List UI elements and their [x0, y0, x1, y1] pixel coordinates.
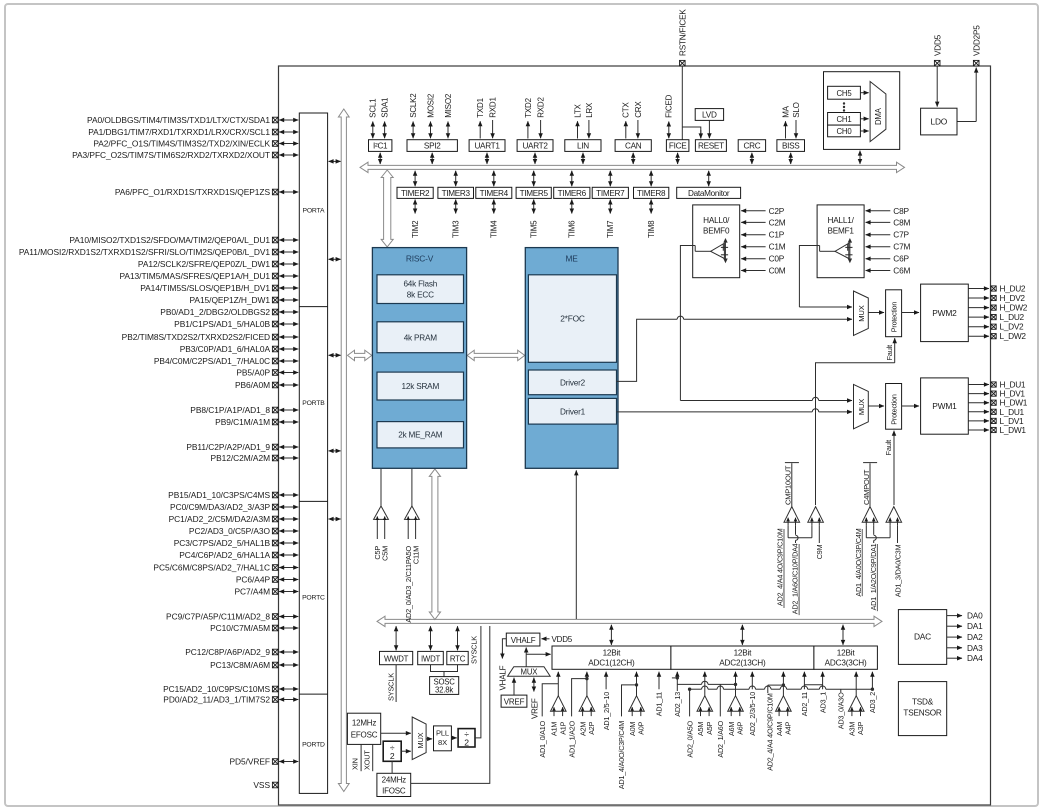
svg-text:AD2_11: AD2_11: [800, 692, 809, 716]
svg-text:CH0: CH0: [837, 127, 853, 136]
svg-text:12Bit: 12Bit: [837, 648, 856, 657]
wire CAN to bus: [632, 153, 634, 164]
svg-text:EFOSC: EFOSC: [351, 730, 378, 739]
wire MUX up to VHALF and ADC1: [525, 648, 527, 667]
wire jog A1: [542, 684, 558, 717]
block PLL 8X: [434, 726, 452, 751]
pin H_DU2: [968, 288, 989, 290]
svg-text:PB4/C0M/C2PS/AD1_7/HAL0C: PB4/C0M/C2PS/AD1_7/HAL0C: [154, 356, 270, 366]
svg-text:RXD2: RXD2: [537, 97, 546, 118]
block CH0: [828, 125, 861, 137]
signal C1P: [741, 234, 765, 236]
wire bus to ADC2: [741, 625, 743, 645]
svg-text:VDD2P5: VDD2P5: [972, 25, 981, 56]
wire bus to TIMER5: [533, 171, 535, 186]
svg-text:Protection: Protection: [890, 394, 899, 425]
amplifier C5: [374, 506, 389, 519]
block TSD TSENSOR: [898, 682, 946, 736]
svg-text:TIM5: TIM5: [530, 220, 539, 238]
svg-text:A0P: A0P: [637, 721, 646, 734]
svg-text:PORTA: PORTA: [303, 207, 325, 214]
wire AD2_1/A6O label stub: [719, 684, 721, 716]
svg-text:ME: ME: [566, 254, 579, 264]
wire port bus link PORTB2: [329, 450, 341, 452]
svg-text:PB0/AD1_2/DBG2/OLDBGS2: PB0/AD1_2/DBG2/OLDBGS2: [160, 307, 270, 317]
svg-text:12Bit: 12Bit: [603, 648, 622, 657]
svg-text:AD1_4/A0O/C3P/C4M: AD1_4/A0O/C3P/C4M: [854, 528, 863, 596]
svg-text:TIMER3: TIMER3: [442, 189, 471, 198]
bus RISC-V to ME: [467, 350, 525, 360]
svg-text:CTX: CTX: [622, 102, 631, 118]
wire bus to TIMER8: [650, 171, 652, 186]
block TIMER7: [592, 187, 628, 198]
comparator C4MPOUT: [862, 507, 878, 523]
block IWDT: [418, 651, 444, 664]
svg-text:PA0/OLDBGS/TIM4/TIM3S/TXD1/LTX: PA0/OLDBGS/TIM4/TIM3S/TXD1/LTX/CTX/SDA1: [87, 115, 270, 125]
svg-text:A1P: A1P: [558, 721, 567, 734]
signal DA2: [947, 636, 962, 638]
svg-text:C8M: C8M: [893, 217, 910, 227]
signal C8M: [866, 221, 891, 223]
svg-text:PB1/C1PS/AD1_5/HAL0B: PB1/C1PS/AD1_5/HAL0B: [174, 319, 270, 329]
pin L_DV2: [968, 326, 989, 328]
block 2*FOC: [528, 275, 616, 363]
wire TIMER5 to pin TIM5: [533, 200, 535, 214]
svg-text:AD2_13: AD2_13: [673, 692, 682, 717]
svg-text:XOUT: XOUT: [362, 750, 371, 770]
block UART1: [469, 140, 505, 152]
block LDO: [921, 108, 957, 135]
svg-text:HALL1/: HALL1/: [828, 216, 855, 225]
block WWDT: [380, 651, 413, 664]
signal C4MPOUT: [869, 463, 871, 506]
wire RSTN to FICE: [681, 66, 683, 140]
mux MUX (PWM2): [854, 291, 869, 335]
svg-text:PC4/C6P/AD2_6/HAL1A: PC4/C6P/AD2_6/HAL1A: [179, 550, 270, 560]
svg-text:MUX: MUX: [857, 399, 866, 415]
wire cmp left input jog: [865, 526, 867, 538]
block 64k Flash 8k ECC: [377, 275, 464, 304]
signal AD3_2: [871, 672, 873, 689]
svg-text:4k PRAM: 4k PRAM: [404, 333, 438, 342]
block RESET: [695, 140, 726, 152]
svg-text:PC2/AD3_0/C5P/A3O: PC2/AD3_0/C5P/A3O: [189, 526, 271, 536]
svg-text:DA3: DA3: [967, 643, 983, 653]
pin L_DW2: [968, 335, 989, 337]
mux VREF MUX: [508, 667, 551, 677]
block CAN: [615, 140, 651, 152]
wire port bus link PORTC: [329, 518, 341, 520]
dots between CH5 CH1: [843, 102, 845, 104]
svg-text:TIMER6: TIMER6: [558, 189, 587, 198]
svg-text:PC0/C9M/DA3/AD2_3/A3P: PC0/C9M/DA3/AD2_3/A3P: [170, 502, 270, 512]
wire jog A2: [572, 679, 587, 717]
wire bus to ADC3: [842, 625, 844, 645]
signal AD3_1: [822, 672, 824, 690]
svg-text:CH1: CH1: [837, 115, 852, 124]
block RTC: [447, 651, 468, 664]
svg-text:AD1_1/A2O/C9P/DA1: AD1_1/A2O/C9P/DA1: [869, 543, 878, 610]
svg-text:AD2_1/A6O/C10P/DA4: AD2_1/A6O/C10P/DA4: [791, 543, 800, 614]
block SPI2: [407, 140, 457, 152]
svg-text:C0P: C0P: [769, 254, 785, 264]
svg-text:TIM2: TIM2: [411, 220, 420, 238]
svg-text:AD2_4/A4 4O/C9P/C10M: AD2_4/A4 4O/C9P/C10M: [776, 528, 785, 606]
svg-text:I²C1: I²C1: [373, 142, 388, 151]
svg-text:C2M: C2M: [769, 217, 786, 227]
block CRC: [738, 140, 765, 152]
svg-text:TIMER7: TIMER7: [596, 189, 625, 198]
block TIMER2: [397, 187, 433, 198]
wire CH5 to DMA: [860, 92, 868, 94]
svg-text:AD1_1/A2O: AD1_1/A2O: [567, 720, 576, 757]
svg-text:TSENSOR: TSENSOR: [903, 708, 941, 717]
wire MUX out (PWM2): [868, 312, 884, 314]
wire AD3_0/A3O label stub: [840, 689, 842, 692]
svg-text:TIM3: TIM3: [452, 220, 461, 238]
block ME: [525, 248, 618, 469]
svg-text:PORTC: PORTC: [302, 594, 325, 601]
amplifier A3: [848, 696, 864, 712]
svg-text:SYSCLK: SYSCLK: [386, 673, 395, 701]
svg-text:TIM8: TIM8: [647, 220, 656, 238]
wire port bus link PORTA: [329, 160, 341, 162]
block HALL0/BEMF0: [693, 205, 740, 278]
block 12MHz EFOSC: [347, 713, 380, 744]
svg-text:TIMER2: TIMER2: [401, 189, 430, 198]
svg-text:PORTD: PORTD: [302, 742, 325, 749]
svg-text:PC15/AD2_10/C9PS/C10MS: PC15/AD2_10/C9PS/C10MS: [163, 684, 270, 694]
mux MUX (PWM1): [854, 384, 869, 428]
wire PLL to div2: [451, 737, 456, 739]
block FICE: [666, 140, 689, 152]
bus peripheral horizontal: [360, 162, 905, 172]
block 24MHz IFOSC: [377, 773, 411, 796]
wire cmp right input stub: [873, 526, 875, 535]
signal VDD5 to VHALF: [542, 638, 550, 640]
svg-text:TSD&: TSD&: [912, 697, 934, 706]
svg-text:H_DW2: H_DW2: [1000, 303, 1028, 313]
wire MUX out (PWM1): [868, 405, 884, 407]
block TIMER6: [554, 187, 590, 198]
svg-text:CH5: CH5: [837, 89, 853, 98]
block RISC-V: [372, 248, 466, 469]
svg-text:TIM6: TIM6: [568, 220, 577, 238]
wire bus to RTC: [457, 626, 459, 650]
wire A4 output to ADC: [782, 672, 784, 696]
svg-text:MOSI2: MOSI2: [426, 93, 435, 118]
wire Protection to PWM1: [902, 405, 919, 407]
pin RSTN/FICEK: [680, 60, 686, 66]
wire SPI2 to bus: [431, 153, 433, 164]
svg-text:Fault: Fault: [885, 345, 894, 361]
signal C2P: [741, 210, 765, 212]
pin H_DU1: [968, 384, 989, 386]
signal VREF dangle: [533, 678, 535, 692]
block ADC1: [552, 646, 671, 669]
svg-text:VDD5: VDD5: [933, 34, 942, 56]
svg-text:AD1_0/A1O: AD1_0/A1O: [538, 720, 547, 757]
svg-text:H_DV2: H_DV2: [1000, 293, 1026, 303]
wire LIN to bus: [582, 153, 584, 164]
block div2 first: [383, 741, 401, 761]
signal SYSCLK below WWDT: [395, 665, 397, 702]
block VREF: [501, 695, 527, 707]
wire IWDT RTC to SOSC: [431, 665, 458, 672]
svg-text:VDD5: VDD5: [552, 635, 573, 644]
wire I2C1 to bus: [379, 153, 381, 164]
block 2k ME_RAM: [377, 422, 464, 448]
wire TIMER6 to pin TIM6: [571, 200, 573, 214]
block SOSC: [430, 677, 459, 695]
block Driver1: [528, 398, 616, 424]
block DAC: [898, 610, 946, 665]
svg-text:DAC: DAC: [914, 632, 931, 642]
wire A1 output to ADC: [557, 672, 559, 696]
svg-text:BEMF0: BEMF0: [703, 227, 730, 236]
svg-text:AD3_2: AD3_2: [868, 692, 877, 713]
svg-text:VHALF: VHALF: [511, 636, 536, 645]
svg-text:PC6/A4P: PC6/A4P: [236, 574, 271, 584]
wire A0 output to ADC: [636, 672, 638, 696]
bus lower horizontal: [377, 616, 882, 626]
svg-text:VSS: VSS: [253, 780, 270, 790]
svg-text:LTX: LTX: [573, 103, 582, 117]
block 12k SRAM: [377, 372, 464, 400]
svg-text:12k SRAM: 12k SRAM: [402, 382, 440, 391]
svg-text:ADC3(3CH): ADC3(3CH): [825, 659, 867, 668]
mux clock MUX: [412, 717, 426, 760]
svg-text:8X: 8X: [438, 738, 447, 747]
wire bus to WWDT: [395, 626, 397, 650]
wire RISC-V to amp C5: [380, 469, 382, 506]
svg-text:DMA: DMA: [874, 107, 883, 125]
signal AD1_11: [658, 672, 660, 690]
svg-text:MUX: MUX: [416, 732, 425, 748]
wire CRC to bus: [751, 153, 753, 164]
block TIMER5: [516, 187, 551, 198]
signal DA3: [947, 647, 962, 649]
wire VHALF left out: [502, 639, 506, 657]
wire LVD to RESET: [708, 120, 710, 138]
svg-text:Fault: Fault: [884, 440, 893, 456]
port bar PORTA-D: [299, 113, 327, 793]
wire LDO to VDD2P5: [957, 121, 976, 123]
chip boundary: [279, 66, 991, 805]
svg-text:PA3/PFC_O2S/TIM7S/TIM6S2/RXD2/: PA3/PFC_O2S/TIM7S/TIM6S2/RXD2/TXRXD2/XOU…: [72, 150, 270, 160]
wire DMA to bus: [859, 151, 861, 164]
svg-text:PC9/C7P/A5P/C11M/AD2_8: PC9/C7P/A5P/C11M/AD2_8: [166, 611, 270, 621]
svg-text:C1M: C1M: [769, 242, 786, 252]
svg-text:PB2/TIM8S/TXD2S2/TXRXD2S2/FICE: PB2/TIM8S/TXD2S2/TXRXD2S2/FICED: [122, 332, 270, 342]
comparator aux right: [886, 507, 902, 523]
svg-text:PA13/TIM5/MAS/SFRES/QEP1A/H_DU: PA13/TIM5/MAS/SFRES/QEP1A/H_DU1: [120, 271, 271, 281]
svg-text:AD3_1: AD3_1: [818, 692, 827, 713]
wire bus to DataMonitor: [708, 171, 710, 186]
svg-text:L_DV2: L_DV2: [1000, 322, 1025, 332]
wire bus to TIMER3: [455, 171, 457, 186]
svg-text:PLL: PLL: [436, 729, 449, 738]
svg-text:LVD: LVD: [702, 111, 717, 120]
wire Protection to PWM2: [902, 312, 919, 314]
svg-text:C11M: C11M: [411, 546, 420, 564]
wire TIMER2 to pin TIM2: [414, 200, 416, 214]
signal CMP10OUT: [791, 463, 793, 506]
wire jog A0: [622, 685, 637, 717]
wire AD2_11 AD3_1 link: [804, 684, 822, 686]
svg-text:VREF: VREF: [530, 698, 539, 719]
wire BISS to bus: [790, 153, 792, 164]
svg-text:32.8k: 32.8k: [435, 686, 453, 695]
svg-text:PC1/AD2_2/C5M/DA2/A3M: PC1/AD2_2/C5M/DA2/A3M: [169, 514, 270, 524]
signal C1M: [741, 246, 765, 248]
signal DA4: [947, 657, 962, 659]
block PWM2: [921, 284, 969, 342]
wire A2 output to ADC: [586, 672, 588, 696]
svg-text:C7P: C7P: [893, 230, 909, 240]
pin L_DU2: [968, 316, 989, 318]
pin H_DV1: [968, 393, 989, 395]
wire bus to TIMER6: [571, 171, 573, 186]
wire RISC-V to amp C11: [411, 469, 413, 506]
svg-text:DA2: DA2: [967, 632, 983, 642]
svg-text:12MHz: 12MHz: [352, 718, 377, 727]
port side vertical bus: [338, 109, 349, 792]
wire ME to lower bus: [575, 470, 577, 619]
wire CH1 to DMA: [860, 118, 868, 120]
svg-text:A2P: A2P: [587, 721, 596, 734]
wire CH0 to DMA: [860, 130, 868, 132]
svg-text:A3P: A3P: [856, 721, 865, 734]
svg-text:AD1_2/5~10: AD1_2/5~10: [602, 692, 611, 730]
wire UART1 to bus: [486, 153, 488, 164]
svg-text:H_DU2: H_DU2: [1000, 284, 1026, 294]
port divider B/C: [299, 500, 327, 502]
wire UART2 to bus: [534, 153, 536, 164]
wire HALL0 output to PWM1 MUX: [680, 246, 695, 401]
signal XIN XOUT: [360, 744, 362, 771]
block Protection (PWM1): [886, 384, 902, 430]
bus ports to RISC-V: [348, 350, 372, 360]
wire VDD5 to LDO: [936, 66, 938, 107]
block PWM1: [921, 378, 969, 434]
amplifier A6: [728, 696, 744, 712]
svg-text:FICE: FICE: [669, 142, 687, 151]
bus RISC-V down vertical: [429, 469, 440, 620]
svg-text:PC3/C7PS/AD2_5/HAL1B: PC3/C7PS/AD2_5/HAL1B: [174, 538, 271, 548]
pin H_DW2: [968, 307, 989, 309]
svg-text:Protection: Protection: [890, 302, 899, 333]
wire IFOSC right up to bus: [411, 626, 490, 783]
svg-text:Driver1: Driver1: [560, 407, 586, 416]
block TIMER8: [634, 187, 669, 198]
amplifier A1: [551, 696, 567, 712]
signal C7P: [866, 234, 891, 236]
wire A5 output to ADC: [704, 672, 706, 696]
svg-text:Driver2: Driver2: [560, 378, 586, 387]
svg-text:C9M: C9M: [815, 544, 824, 559]
block I2C1: [369, 140, 392, 152]
svg-text:C6P: C6P: [893, 254, 909, 264]
svg-text:PORTB: PORTB: [302, 400, 325, 407]
signal AD1_2/5~10: [605, 672, 607, 690]
pin L_DU1: [968, 411, 989, 413]
block TIMER3: [438, 187, 474, 198]
svg-text:ADC2(13CH): ADC2(13CH): [719, 659, 766, 668]
wire ADC2 upper link: [677, 683, 701, 685]
svg-text:TIMER8: TIMER8: [637, 189, 666, 198]
pin L_DW1: [968, 429, 989, 431]
svg-text:12Bit: 12Bit: [734, 648, 753, 657]
svg-text:CAN: CAN: [625, 142, 642, 151]
wire EFOSC to MUX: [381, 732, 411, 734]
svg-text:TIMER5: TIMER5: [520, 189, 549, 198]
svg-text:RESET: RESET: [698, 142, 724, 151]
svg-text:ADC1(12CH): ADC1(12CH): [588, 659, 635, 668]
signal C6M: [866, 270, 891, 272]
svg-text:PB9/C1M/A1M: PB9/C1M/A1M: [215, 417, 270, 427]
svg-text:A5P: A5P: [705, 721, 714, 734]
svg-text:2k ME_RAM: 2k ME_RAM: [398, 431, 443, 440]
svg-text:AD1_11: AD1_11: [655, 692, 664, 716]
comparator inside HALL1/BEMF1: [835, 243, 849, 258]
svg-text:PB8/C1P/A1P/AD1_8: PB8/C1P/A1P/AD1_8: [190, 405, 270, 415]
svg-text:AD2_1/A6O: AD2_1/A6O: [716, 720, 725, 757]
svg-text:UART1: UART1: [474, 142, 500, 151]
svg-text:RXD1: RXD1: [489, 97, 498, 118]
wire VREF to MUX: [513, 678, 515, 695]
wire A3 output to ADC: [855, 672, 857, 696]
svg-text:MISO2: MISO2: [444, 93, 453, 118]
svg-text:PA2/PFC_O1S/TIM4S/TIM3S2/TXD2/: PA2/PFC_O1S/TIM4S/TIM3S2/TXD2/XIN/ECLK: [93, 138, 270, 148]
signal DA0: [947, 615, 962, 617]
wire jog A4: [767, 685, 769, 693]
wire Driver1 to PWM1 MUX: [617, 411, 813, 413]
svg-text:LDO: LDO: [930, 116, 947, 126]
block ADC3: [814, 646, 878, 669]
svg-text:MA: MA: [781, 105, 790, 117]
svg-text:PB15/AD1_10/C3PS/C4MS: PB15/AD1_10/C3PS/C4MS: [168, 490, 270, 500]
svg-text:L_DU2: L_DU2: [1000, 312, 1025, 322]
svg-text:64k Flash: 64k Flash: [403, 280, 437, 289]
signal AD2_13: [676, 672, 678, 691]
svg-text:RTC: RTC: [450, 654, 466, 663]
wire TIMER8 to pin TIM8: [650, 200, 652, 214]
block 4k PRAM: [377, 322, 464, 353]
svg-text:SYSCLK: SYSCLK: [470, 636, 479, 664]
svg-text:AD2_4/A4 4O/C9P/C10M: AD2_4/A4 4O/C9P/C10M: [765, 693, 774, 771]
signal AD2_11: [803, 672, 805, 690]
svg-text:PC13/C8M/A6M: PC13/C8M/A6M: [210, 660, 270, 670]
svg-text:TXD1: TXD1: [476, 97, 485, 117]
comparator inside HALL0/BEMF0: [711, 243, 725, 258]
svg-text:LIN: LIN: [577, 142, 589, 151]
svg-text:MUX: MUX: [857, 305, 866, 321]
block TIMER4: [476, 187, 512, 198]
svg-text:PA11/MOSI2/RXD1S2/TXRXD1S2/SFR: PA11/MOSI2/RXD1S2/TXRXD1S2/SFRI/SLO/TIM2…: [19, 247, 271, 257]
wire TIMER7 to pin TIM7: [609, 200, 611, 214]
svg-text:8k ECC: 8k ECC: [407, 290, 434, 299]
svg-text:TXD2: TXD2: [524, 97, 533, 117]
svg-text:CRC: CRC: [743, 142, 760, 151]
svg-text:AD1_4/A0O/C3P/C4M: AD1_4/A0O/C3P/C4M: [617, 721, 626, 789]
svg-text:PB12/C2M/A2M: PB12/C2M/A2M: [211, 453, 271, 463]
signal C8P: [866, 210, 891, 212]
wire bus to IWDT: [430, 626, 432, 650]
svg-text:DA0: DA0: [967, 611, 983, 621]
svg-text:PC7/A4M: PC7/A4M: [235, 586, 271, 596]
svg-text:XIN: XIN: [351, 758, 360, 770]
